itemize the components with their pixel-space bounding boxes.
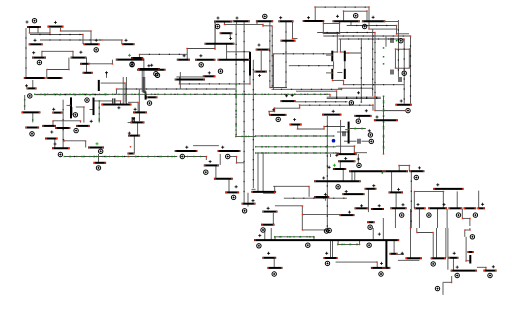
pin P37 [336, 185, 340, 189]
wire W232 [418, 209, 420, 228]
pin P31 [180, 154, 184, 158]
wire W60 [263, 25, 272, 27]
transistor Q20 [55, 127, 70, 129]
wire W235 [461, 209, 463, 218]
transistor Q23 [101, 104, 131, 106]
wire W13 [121, 40, 123, 44]
wire W206 [274, 186, 276, 193]
wire W121 [272, 54, 274, 90]
transistor Q40 [362, 20, 385, 22]
wire W166 [337, 131, 348, 133]
pin P2 [94, 48, 98, 52]
wire W22 [86, 58, 88, 73]
pin P13 [215, 24, 219, 28]
transistor Q81 [433, 188, 463, 190]
wire W228 [456, 191, 458, 208]
wire W180 [383, 137, 385, 154]
wire W138 [235, 24, 237, 136]
wire W268 [465, 229, 470, 231]
wire W198 [247, 193, 249, 207]
wire W19 [47, 69, 69, 71]
wire W80 [368, 7, 370, 29]
wire W31 [52, 121, 54, 126]
transistor Q87 [477, 207, 485, 209]
wire W51 [122, 77, 124, 104]
component polarity plus marks [25, 15, 495, 269]
wire W32 [79, 121, 81, 123]
transistor Q94 [389, 253, 397, 255]
pin P15 [155, 73, 159, 77]
wire W5 [60, 28, 62, 31]
wire W217 [272, 213, 274, 224]
wire W141 [272, 88, 342, 90]
transistor Q24 [88, 147, 104, 149]
transistor Q38 [303, 20, 325, 22]
transistor QV2 [98, 80, 100, 91]
wire W52 [125, 77, 127, 104]
wire W6 [61, 30, 91, 32]
wire W38 [124, 83, 126, 103]
wire W255 [398, 259, 420, 261]
pin P45 [473, 213, 477, 217]
wire W130 [179, 72, 181, 89]
wire W63 [229, 34, 231, 37]
pin P54 [455, 273, 459, 277]
wire W224 [395, 193, 397, 208]
wire W208 [284, 197, 347, 199]
transistor Q19 [42, 125, 56, 127]
pin P40 [368, 225, 372, 229]
transistor Q95 [406, 257, 422, 259]
wire W26 [24, 95, 26, 110]
pin P25 [276, 117, 280, 121]
transistor QV10 [348, 122, 350, 144]
pin P22 [402, 71, 406, 75]
wire W86 [397, 33, 410, 35]
transistor Q7 [80, 63, 89, 65]
wire W252 [376, 262, 378, 267]
wire W181 [384, 110, 406, 112]
wire W194 [252, 188, 256, 190]
wire W74 [179, 83, 250, 85]
wire W94 [322, 23, 324, 33]
wire W123 [385, 21, 398, 23]
wire W96 [323, 33, 339, 35]
probe dot (blue) [332, 139, 336, 143]
pin P21 [399, 39, 403, 43]
wire W43 [76, 106, 84, 108]
wire W116 [271, 26, 273, 88]
wire W77 [293, 38, 298, 40]
wire W182 [65, 156, 129, 158]
pin P10 [85, 98, 89, 102]
pin P36 [357, 163, 361, 167]
transistor Q45 [133, 111, 147, 113]
wire W92 [403, 39, 405, 104]
wire W4 [49, 28, 51, 33]
wire W146 [336, 91, 338, 97]
wire W59 [262, 24, 264, 25]
wire W54 [128, 122, 136, 124]
pin P53 [431, 262, 435, 266]
wire W58 [224, 23, 263, 25]
pin P34 [231, 195, 235, 199]
wire W98 [339, 22, 341, 24]
wire W8 [25, 28, 27, 79]
wire W187 [219, 154, 221, 165]
transistor Q78 [384, 170, 408, 172]
transistor Q18 [76, 125, 90, 127]
wire W248 [332, 240, 334, 258]
wire W57 [256, 22, 258, 25]
pin P19 [354, 14, 358, 18]
wire W272 [477, 266, 486, 268]
transistor Q9 [83, 72, 93, 74]
wire W238 [264, 228, 266, 240]
wire W36 [85, 141, 87, 148]
transistor Q42 [254, 71, 267, 73]
wire W249 [372, 228, 374, 240]
wire W109 [337, 72, 342, 74]
transistor QV6 [331, 69, 333, 79]
wire W162 [268, 111, 270, 115]
wire W245 [359, 240, 361, 244]
wire W265 [443, 281, 452, 283]
wire W70 [143, 58, 145, 92]
wire W258 [417, 232, 433, 234]
pin P57 [488, 273, 492, 277]
transistor Q55 [290, 124, 302, 126]
wire W47 [35, 93, 330, 95]
wire W173 [256, 135, 334, 137]
wire W165 [350, 128, 366, 130]
pin P56 [470, 235, 474, 239]
pin P16 [199, 63, 203, 67]
wire W117 [260, 51, 262, 71]
wire W167 [344, 140, 357, 142]
pin P27 [368, 133, 372, 137]
wire W135 [138, 113, 140, 121]
wire W271 [466, 260, 471, 262]
transistor Q51 [280, 100, 295, 102]
wire W216 [302, 229, 329, 231]
wire W100 [336, 33, 338, 53]
wire W75 [252, 60, 254, 188]
transistor Q30 [137, 69, 166, 71]
wire W199 [330, 154, 332, 157]
transistor QV5 [344, 51, 346, 62]
wire W128 [408, 49, 410, 68]
transistor Q14 [27, 87, 37, 89]
wire W39 [90, 109, 93, 111]
transistor Q21 [45, 138, 58, 140]
transistor Q41 [256, 49, 270, 51]
wire W134 [137, 102, 139, 112]
capacitor C1 [113, 98, 115, 103]
transistor Q22 [52, 147, 70, 149]
wire W201 [357, 154, 359, 163]
wire W244 [337, 240, 339, 244]
wire W68 [139, 53, 187, 55]
wire W49 [116, 89, 118, 94]
green polarity marks [96, 54, 336, 167]
pin P38 [261, 228, 265, 232]
transistor Q96 [431, 257, 446, 259]
pin P12 [99, 149, 103, 153]
wire W221 [408, 165, 410, 171]
wire W108 [344, 61, 346, 69]
wire W214 [302, 214, 339, 216]
transistor Q34 [203, 75, 216, 77]
wire W164 [345, 129, 348, 131]
transistor QV8 [249, 52, 251, 76]
wire W207 [263, 192, 275, 194]
wire W190 [237, 162, 245, 164]
wire W24 [32, 80, 34, 88]
wire W112 [343, 80, 345, 84]
capacitor C5 [358, 139, 360, 144]
wire W66 [214, 44, 216, 48]
wire W11 [40, 39, 102, 41]
wire W247 [330, 240, 332, 258]
capacitor C7 [399, 77, 401, 82]
wire W79 [314, 7, 316, 21]
transistor Q16 [25, 127, 39, 129]
wire W171 [323, 127, 325, 130]
wire W176 [336, 145, 354, 147]
pin P50 [272, 272, 276, 276]
wire W34 [63, 139, 65, 141]
wire W101 [339, 39, 341, 52]
wire W241 [274, 237, 276, 240]
wire W218 [367, 188, 369, 212]
transistor Q6 [116, 59, 144, 61]
wire W102 [333, 51, 337, 53]
wire W215 [301, 215, 303, 230]
wire W61 [214, 22, 216, 50]
transistor Q66 [333, 168, 346, 170]
pin P17 [218, 69, 222, 73]
wire W72 [176, 76, 202, 78]
transistor QV7 [344, 69, 346, 79]
transistor Q83 [414, 207, 425, 209]
transistor Q13 [47, 77, 63, 79]
transistor Q75 [371, 208, 384, 210]
wire W147 [327, 96, 381, 98]
wire W104 [326, 54, 332, 56]
pin P11 [73, 113, 77, 117]
wire W122 [273, 53, 331, 55]
wire W48 [329, 94, 331, 97]
transistor QV11 [385, 240, 387, 268]
wire W186 [205, 157, 207, 161]
transistor Q74 [355, 207, 369, 209]
wire W183 [98, 154, 100, 163]
transistor Q10 [32, 57, 46, 59]
transistor Q99 [483, 270, 496, 272]
pin P43 [427, 213, 431, 217]
wire W110 [331, 79, 333, 80]
wire W191 [243, 22, 245, 204]
wire W40 [94, 100, 112, 102]
pin P48 [306, 243, 310, 247]
transistor Q73 [365, 188, 377, 190]
wire W219 [398, 165, 400, 171]
wire W237 [469, 218, 471, 226]
pin P52 [379, 272, 383, 276]
wire W242 [313, 237, 315, 240]
wire W220 [399, 164, 409, 166]
wire W197 [262, 152, 264, 192]
transistor Q47 [128, 135, 140, 137]
wire W251 [336, 261, 378, 263]
wire W246 [273, 258, 275, 267]
transistor Q76 [339, 214, 354, 216]
wire W184 [128, 156, 177, 158]
transistor Q52 [269, 114, 286, 116]
wire W93 [323, 22, 339, 24]
pin P35 [242, 209, 246, 213]
wire W177 [353, 146, 355, 153]
wire W124 [397, 20, 399, 77]
transistor Q79 [409, 170, 424, 172]
transistor Q2 [48, 26, 64, 28]
wire W150 [372, 29, 374, 96]
transistor Q100 [467, 251, 473, 253]
transistor QV1 [70, 97, 72, 118]
wire W132 [144, 77, 146, 93]
transistor Q92 [371, 267, 384, 269]
wire W195 [252, 191, 256, 193]
wire W262 [447, 228, 449, 270]
wire W240 [275, 236, 314, 238]
transistor Q70 [314, 196, 329, 198]
wire W53 [138, 90, 140, 113]
transistor Q58 [93, 162, 106, 164]
wire W259 [432, 233, 434, 258]
wire W159 [274, 107, 299, 109]
wire W193 [228, 179, 230, 192]
wire W2 [37, 28, 39, 33]
wire W90 [410, 36, 412, 104]
pin P55 [435, 286, 439, 290]
wire W28 [62, 100, 64, 148]
transistor Q32 [195, 59, 215, 61]
wire W14 [89, 63, 112, 65]
wire W106 [326, 72, 332, 74]
wire W168 [362, 140, 369, 142]
wire W95 [339, 23, 341, 33]
wire W156 [300, 104, 373, 106]
transistor Q54 [354, 115, 371, 117]
wire W139 [236, 135, 256, 137]
wire W64 [226, 44, 228, 59]
transistor Q29 [131, 57, 143, 59]
transistor Q8 [138, 68, 160, 70]
wire W266 [451, 276, 453, 282]
wire W200 [339, 162, 341, 169]
wire W151 [374, 33, 376, 97]
wire W78 [315, 6, 369, 8]
transistor Q15 [22, 111, 41, 113]
wire W143 [270, 87, 287, 89]
wire W152 [374, 96, 376, 110]
wire W33 [54, 140, 56, 149]
transistor Q26 [233, 20, 250, 22]
wire W202 [326, 116, 328, 229]
wire W223 [391, 171, 393, 192]
transistor Q48 [128, 153, 135, 155]
transistor Q85 [448, 207, 462, 209]
transistor Q63 [251, 191, 276, 193]
wire W230 [394, 209, 396, 228]
wire W127 [394, 49, 396, 68]
transistor Q12 [24, 77, 46, 79]
transistor Q28 [205, 43, 235, 45]
pin P47 [257, 244, 261, 248]
transistor Q60 [214, 178, 233, 180]
wire W203 [342, 170, 344, 183]
transistor Q86 [464, 207, 477, 209]
wire W56 [236, 22, 238, 25]
pin P4 [154, 72, 158, 76]
wire W189 [236, 157, 238, 163]
transistor Q84 [428, 207, 447, 209]
wire W46 [98, 101, 100, 123]
wire W73 [178, 77, 180, 84]
wire W229 [478, 191, 480, 209]
wire W222 [410, 171, 412, 228]
transistor Q11 [71, 57, 87, 59]
wire W212 [275, 205, 302, 207]
wire W158 [299, 105, 301, 108]
wire W148 [327, 97, 381, 99]
wire W161 [269, 110, 274, 112]
transistor Q62 [242, 203, 256, 205]
transistor Q27 [220, 32, 233, 34]
wire W119 [227, 51, 250, 53]
transistor Q72 [261, 224, 275, 226]
wire W3 [29, 32, 50, 34]
transistor Q4 [83, 43, 99, 45]
wire W254 [398, 253, 404, 255]
wire W9 [30, 34, 83, 36]
wire W133 [128, 101, 138, 103]
wire W154 [383, 96, 385, 154]
transistor Q36 [278, 20, 293, 22]
transistor Q46 [131, 121, 145, 123]
transistor Q93 [384, 267, 390, 269]
wire W243 [338, 243, 360, 245]
wire W76 [292, 22, 294, 39]
wire W256 [410, 228, 412, 258]
transistor Q3 [29, 43, 43, 45]
wire W120 [249, 76, 251, 84]
wire W149 [360, 38, 362, 102]
pin P3 [130, 62, 134, 66]
wire W71 [141, 70, 143, 92]
wire W179 [256, 152, 339, 154]
wire W27 [32, 113, 34, 122]
transistor Q1 [27, 26, 41, 28]
wire W239 [270, 228, 272, 240]
pin P5 [37, 60, 41, 64]
wire W118 [289, 65, 334, 67]
wire W163 [358, 117, 360, 120]
wire W37 [101, 82, 125, 84]
transistor QV4 [331, 51, 333, 62]
wire W105 [345, 52, 361, 54]
